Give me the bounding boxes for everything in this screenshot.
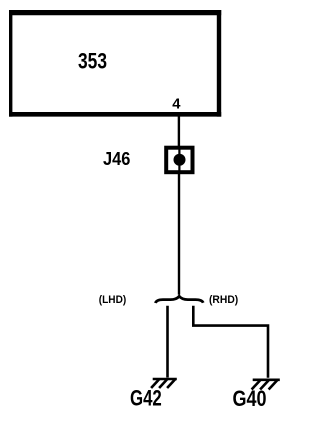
ground G42 xyxy=(152,379,176,387)
wire from pin 4 to J46 xyxy=(178,116,180,147)
svg-text:4: 4 xyxy=(172,95,181,112)
connector J46 xyxy=(166,148,192,173)
svg-text:G42: G42 xyxy=(130,385,162,410)
svg-text:(LHD): (LHD) xyxy=(99,294,127,306)
wire RHD branch to G40 xyxy=(193,306,268,378)
svg-text:(RHD): (RHD) xyxy=(209,294,239,306)
split brace (LHD/RHD option) xyxy=(155,296,203,303)
wire through J46 xyxy=(178,149,180,172)
junction dot xyxy=(174,154,186,166)
svg-text:J46: J46 xyxy=(103,148,130,169)
wire LHD branch to G42 xyxy=(166,306,169,378)
ground G40 xyxy=(253,380,279,389)
svg-text:G40: G40 xyxy=(233,386,267,411)
svg-text:353: 353 xyxy=(78,49,107,74)
wire from J46 to LHD/RHD split xyxy=(178,174,180,295)
component box 353 xyxy=(9,10,221,117)
